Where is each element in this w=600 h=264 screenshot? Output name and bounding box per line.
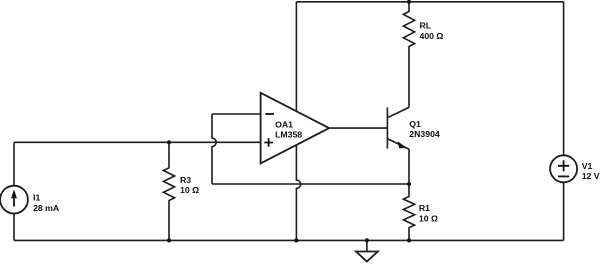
resistor RL bbox=[403, 2, 443, 108]
node: junction dot R3 bottom bbox=[167, 238, 171, 242]
wire: feedback horizontal to emitter node bbox=[212, 183, 409, 185]
svg-text:10 Ω: 10 Ω bbox=[180, 185, 199, 195]
svg-text:RL: RL bbox=[420, 21, 432, 31]
svg-text:LM358: LM358 bbox=[275, 129, 302, 139]
svg-text:12 V: 12 V bbox=[582, 171, 600, 181]
svg-text:Q1: Q1 bbox=[409, 119, 421, 129]
node: junction dot R3 top bbox=[167, 140, 171, 144]
node: junction dot RL top bbox=[407, 0, 411, 4]
svg-text:I1: I1 bbox=[33, 192, 40, 202]
voltage source V1 bbox=[550, 155, 600, 182]
node: junction dot op-amp V- at bottom rail bbox=[294, 238, 298, 242]
wire: op-amp V+ vertical bbox=[295, 2, 297, 111]
wire: left branch top vertical (corner to I1) bbox=[13, 142, 15, 185]
node: junction dot ground at bottom rail bbox=[365, 238, 369, 242]
wire: op-amp V- vertical with hop over feedback wire bbox=[296, 145, 300, 240]
svg-text:OA1: OA1 bbox=[275, 119, 293, 129]
wire: right branch vertical (top rail down to V1) bbox=[563, 2, 565, 156]
current source I1 bbox=[0, 186, 60, 214]
svg-text:V1: V1 bbox=[582, 161, 593, 171]
svg-text:400 Ω: 400 Ω bbox=[420, 31, 444, 41]
transistor Q1 bbox=[387, 107, 440, 184]
wire: top rail from op-amp V+ corner to V1 branch bbox=[296, 1, 563, 3]
resistor R3 bbox=[163, 142, 199, 240]
wire: op-amp - input horizontal bbox=[212, 113, 261, 115]
svg-text:10 Ω: 10 Ω bbox=[419, 214, 438, 224]
svg-text:R1: R1 bbox=[419, 203, 430, 213]
wire: bottom rail bbox=[14, 239, 564, 241]
wire: V1 bottom to bottom rail bbox=[563, 182, 565, 240]
wire: vertical from - input down to feedback, hop over + input wire bbox=[212, 114, 216, 184]
wire: top-left horizontal to op-amp + input bbox=[14, 141, 261, 143]
ground bbox=[356, 240, 378, 261]
node: junction dot emitter/feedback/R1 bbox=[407, 182, 411, 186]
wire: op-amp output to transistor base bbox=[329, 127, 387, 129]
svg-text:2N3904: 2N3904 bbox=[409, 129, 440, 139]
wire: I1 bottom to bottom rail bbox=[13, 214, 15, 241]
resistor R1 bbox=[403, 184, 438, 240]
svg-text:28 mA: 28 mA bbox=[33, 203, 60, 213]
op-amp U1 OA1 bbox=[261, 93, 330, 164]
node: junction dot R1 bottom bbox=[407, 238, 411, 242]
svg-text:R3: R3 bbox=[180, 175, 191, 185]
